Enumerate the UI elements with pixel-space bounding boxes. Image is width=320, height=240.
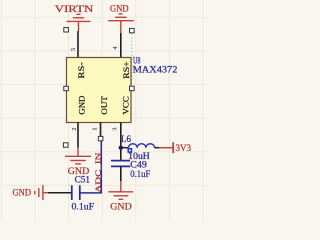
wire VIRTN to pin 5 xyxy=(77,31,79,58)
wire pin 2 GND down xyxy=(77,123,79,148)
selection handle (left edge) xyxy=(64,86,69,90)
wire pin 3 VCC down xyxy=(120,123,122,161)
power port GND (top right) xyxy=(108,3,134,33)
svg-text:3: 3 xyxy=(112,128,119,131)
svg-text:0.1uF: 0.1uF xyxy=(72,202,95,212)
IC U8 MAX4372 body xyxy=(67,58,132,123)
svg-text:ADC_IN: ADC_IN xyxy=(94,152,103,193)
svg-text:GND: GND xyxy=(78,96,87,115)
ground symbol (below GND pin) xyxy=(65,148,91,164)
svg-text:C49: C49 xyxy=(130,159,147,169)
capacitor C51 xyxy=(48,185,80,200)
junction xyxy=(119,146,123,150)
wire C49 to ground xyxy=(120,166,122,181)
svg-text:5: 5 xyxy=(70,48,77,51)
wire ADC_IN (blue) xyxy=(80,141,101,193)
wire pin 1 OUT down xyxy=(100,123,102,138)
selection handle (near ground) xyxy=(63,143,68,147)
svg-text:C51: C51 xyxy=(75,174,91,184)
inductor L6 xyxy=(128,144,154,152)
wire GND to pin 4 xyxy=(120,33,122,58)
svg-text:RS-: RS- xyxy=(77,62,86,79)
power port VIRTN xyxy=(55,4,94,31)
selection dashed line xyxy=(131,34,133,87)
power port 3V3 xyxy=(159,142,191,153)
selection handle (right edge) xyxy=(130,86,135,90)
power port GND (left, horizontal) xyxy=(13,185,49,200)
svg-text:3V3: 3V3 xyxy=(176,143,192,153)
svg-text:GND: GND xyxy=(110,201,132,211)
selection handle (on OUT wire) xyxy=(98,136,103,140)
svg-text:2: 2 xyxy=(71,127,78,130)
svg-text:L6: L6 xyxy=(121,134,131,144)
selection handle (top left) xyxy=(64,28,69,32)
svg-text:0.1uF: 0.1uF xyxy=(130,169,150,179)
svg-text:GND: GND xyxy=(13,187,32,197)
svg-text:OUT: OUT xyxy=(100,96,109,115)
svg-text:VCC: VCC xyxy=(122,96,131,115)
wire inductor to 3V3 xyxy=(155,147,159,149)
svg-text:MAX4372: MAX4372 xyxy=(133,65,178,75)
svg-text:1: 1 xyxy=(91,127,98,130)
wire junction to inductor xyxy=(121,147,128,149)
selection handle (top right) xyxy=(130,28,135,32)
ground symbol (bottom right) xyxy=(108,181,133,199)
svg-text:VIRTN: VIRTN xyxy=(55,4,94,14)
svg-text:GND: GND xyxy=(110,3,129,13)
svg-text:RS+: RS+ xyxy=(122,61,131,79)
capacitor C49 xyxy=(111,161,130,167)
